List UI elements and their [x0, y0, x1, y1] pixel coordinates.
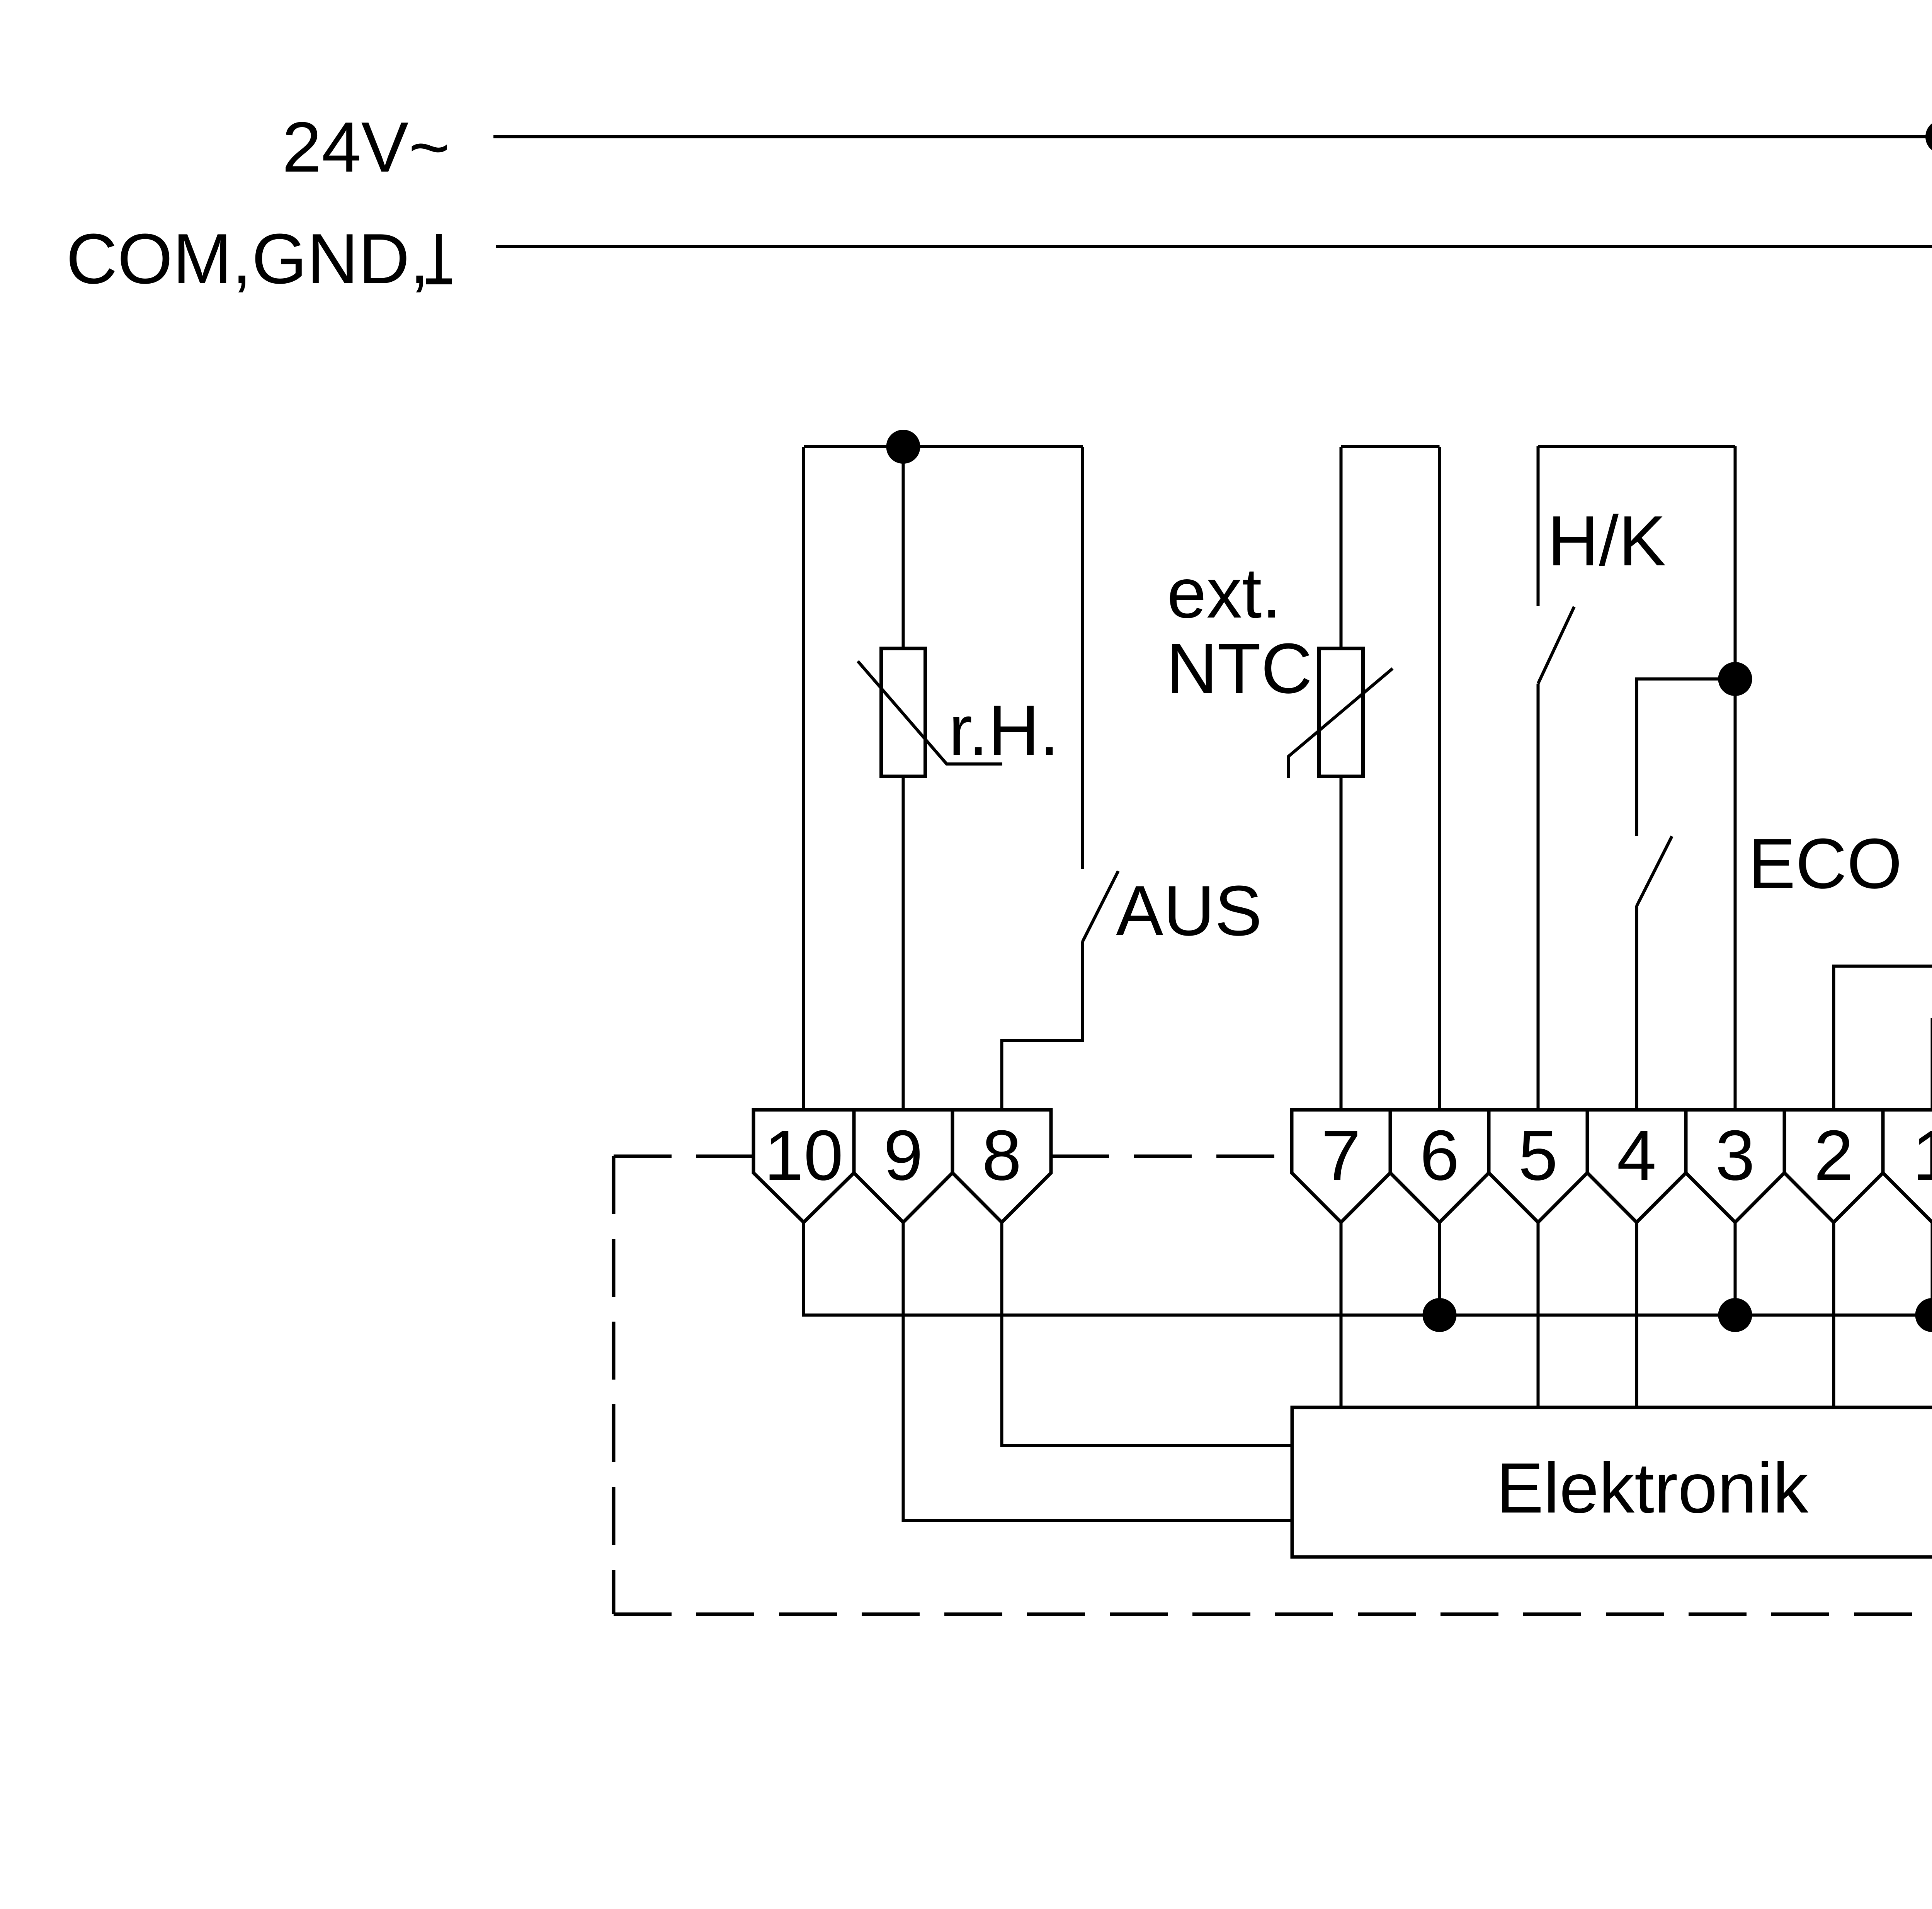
- power rail 24V~: [493, 135, 1932, 138]
- svg-text:9: 9: [883, 1115, 923, 1195]
- dashed enclosure (device boundary): [614, 1156, 1932, 1614]
- junction dot ECO tap: [1718, 662, 1752, 696]
- svg-text:3: 3: [1715, 1115, 1755, 1195]
- wire NTC upper lead: [1340, 447, 1343, 648]
- junction dot r.H. tap: [886, 430, 920, 464]
- ground rail COM,GND: [496, 245, 1932, 248]
- wire NTC lower lead to terminal 7: [1340, 776, 1343, 1110]
- svg-text:7: 7: [1321, 1115, 1361, 1195]
- svg-text:ext.: ext.: [1167, 553, 1282, 633]
- terminal 4: [1587, 1110, 1686, 1222]
- svg-text:H/K: H/K: [1548, 501, 1666, 580]
- junction dot bus/terminal 3: [1718, 1298, 1752, 1332]
- svg-text:Elektronik: Elektronik: [1496, 1448, 1809, 1528]
- terminal 2: [1784, 1110, 1883, 1222]
- wire terminal 6 to bus: [1438, 1222, 1441, 1315]
- svg-text:10: 10: [764, 1115, 844, 1195]
- wire r.H. top lead: [902, 447, 905, 648]
- svg-text:6: 6: [1420, 1115, 1459, 1195]
- svg-text:1: 1: [1912, 1115, 1932, 1195]
- terminal 3: [1686, 1110, 1784, 1222]
- terminal 10: [753, 1110, 854, 1222]
- wire 24V~ rail to terminal 2: [1834, 137, 1932, 1110]
- resistor ext. NTC sensor: [1319, 648, 1363, 776]
- switch AUS blade: [1083, 871, 1118, 941]
- wire AUS upper contact: [1081, 447, 1084, 869]
- wire terminal 4 to Elektronik top: [1635, 1222, 1638, 1407]
- wire r.H. bottom lead to terminal 9: [902, 776, 905, 1110]
- NTC variable-resistor arrow: [1289, 669, 1393, 778]
- resistor r.H. humidity sensor: [881, 648, 925, 776]
- r.H. variable-resistor arrow: [858, 661, 1002, 764]
- terminal 6: [1390, 1110, 1489, 1222]
- svg-text:2: 2: [1814, 1115, 1853, 1195]
- terminal 5: [1489, 1110, 1587, 1222]
- svg-text:5: 5: [1518, 1115, 1558, 1195]
- wire terminal 8 to Elektronik left: [1002, 1222, 1293, 1445]
- wire terminal 7 to Elektronik top: [1340, 1222, 1343, 1407]
- switch H/K blade: [1538, 607, 1575, 684]
- junction dot on 24V~ rail: [1925, 120, 1932, 154]
- wire r.H. loop top: [804, 445, 1083, 448]
- svg-text:AUS: AUS: [1116, 871, 1262, 950]
- net label COM,GND,&#8869;: [66, 219, 429, 298]
- wire H/K loop right to terminal 3: [1734, 446, 1737, 1110]
- wire terminal 9 to Elektronik left: [903, 1222, 1293, 1521]
- svg-text:8: 8: [982, 1115, 1021, 1195]
- svg-text:r.H.: r.H.: [949, 690, 1059, 770]
- Elektronik block U1: [1292, 1407, 1932, 1557]
- wire ECO lower contact to terminal 4: [1635, 906, 1638, 1110]
- terminal 8: [952, 1110, 1051, 1222]
- wire terminal 5 to Elektronik top: [1537, 1222, 1540, 1407]
- wire terminal 2 to Elektronik top: [1832, 1222, 1835, 1407]
- junction dot bus/terminal 6: [1423, 1298, 1457, 1332]
- switch ECO blade: [1637, 836, 1672, 906]
- wire NTC loop right to terminal 6: [1438, 447, 1441, 1110]
- wire terminal 3 to bus: [1734, 1222, 1737, 1315]
- svg-text:NTC: NTC: [1166, 628, 1312, 708]
- junction dot bus/terminal 1: [1915, 1298, 1932, 1332]
- wire H/K upper contact: [1537, 446, 1540, 606]
- terminal 1: [1883, 1110, 1932, 1222]
- terminal 9: [854, 1110, 952, 1222]
- svg-text:ECO: ECO: [1748, 823, 1902, 903]
- wire H/K lower contact to terminal 5: [1537, 684, 1540, 1110]
- svg-text:COM,GND,: COM,GND,: [66, 219, 429, 298]
- wire NTC loop top: [1341, 445, 1440, 448]
- ground symbol glyph: [426, 234, 452, 281]
- terminal 7: [1292, 1110, 1390, 1222]
- wire AUS lower contact to terminal 8: [1002, 941, 1083, 1110]
- wire terminal 10 up to r.H. loop: [802, 447, 805, 1110]
- wire H/K loop top: [1538, 445, 1735, 448]
- wire ECO tap to upper contact: [1637, 679, 1735, 836]
- wire terminal 1 to bus: [1931, 1222, 1932, 1315]
- bus wire terminal 10 to terminal 13: [804, 1222, 1932, 1315]
- svg-text:24V~: 24V~: [282, 107, 450, 187]
- svg-text:4: 4: [1617, 1115, 1656, 1195]
